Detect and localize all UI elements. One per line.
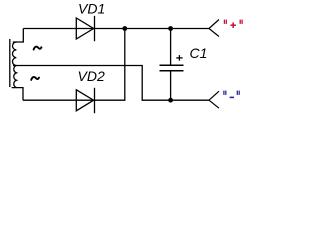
diode VD1 [76,16,94,41]
winding bottom lead wire [12,88,23,101]
diode VD2 [76,88,94,113]
center tap wire to minus rail [13,66,209,101]
junction dot node A (VD1/VD2 cathodes) [122,26,127,31]
winding top lead wire [13,29,23,43]
capacitor C1 top lead [170,29,172,66]
plus output terminal arrow [209,20,219,37]
svg-text:C1: C1 [190,45,208,61]
transformer T1 core line [9,39,11,87]
top wire (VD1 anode/cathode rail) [23,28,209,30]
junction dot node C (cap bottom / minus rail) [168,98,173,103]
label "-" output [224,91,239,98]
transformer T1 secondary winding [12,42,16,88]
bottom wire through VD2 [23,29,125,101]
capacitor polarity plus sign [176,55,182,61]
junction dot node B (cap top) [168,26,173,31]
capacitor C1 plates [160,64,184,66]
AC tilde top [34,47,42,50]
minus output terminal arrow [209,91,219,108]
svg-text:VD2: VD2 [78,68,105,84]
label "+" output [224,20,242,28]
svg-text:VD1: VD1 [78,1,105,17]
AC tilde bottom [31,77,39,80]
capacitor C1 bottom lead [170,71,172,101]
